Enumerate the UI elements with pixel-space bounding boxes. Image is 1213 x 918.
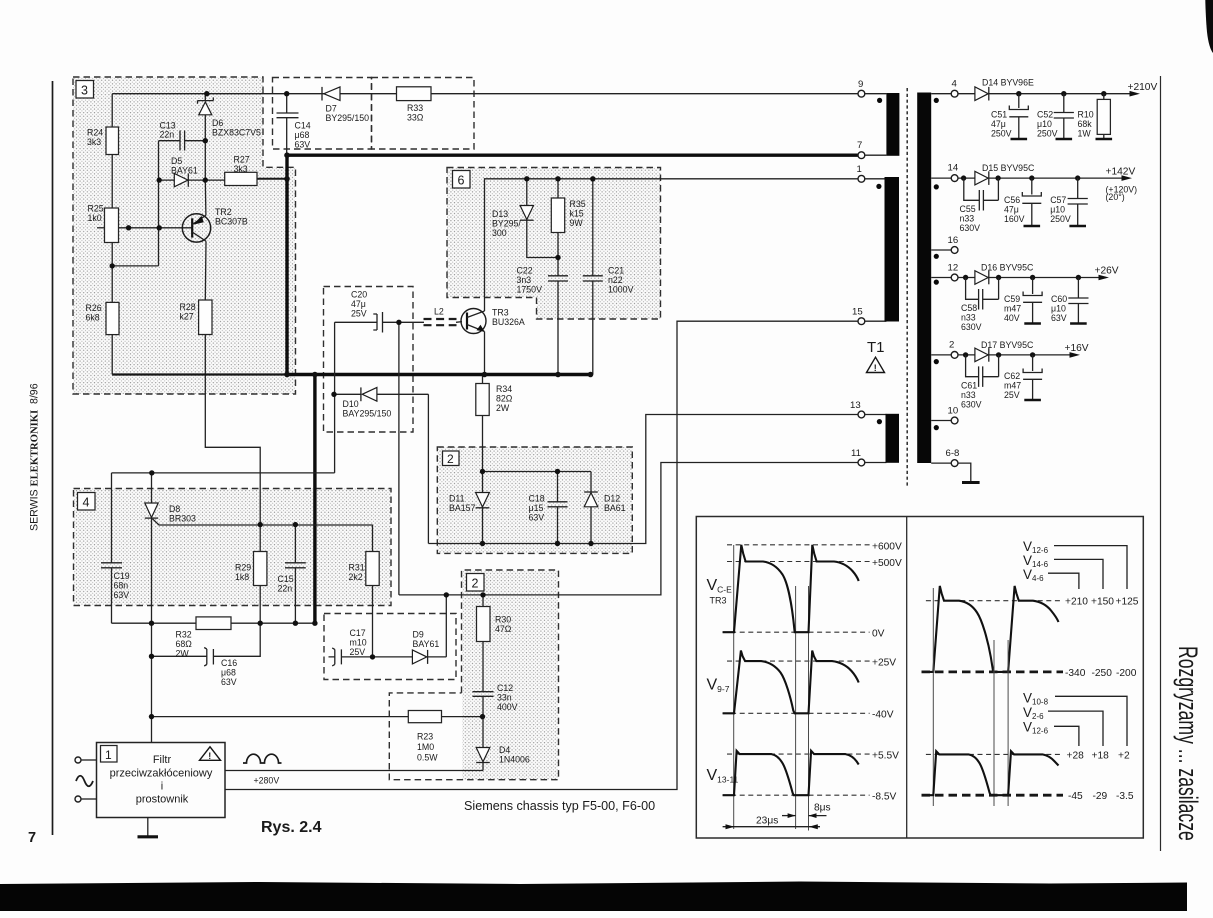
svg-text:2k2: 2k2 [349, 572, 363, 582]
+210V rail wire [958, 93, 1137, 95]
svg-text:1k0: 1k0 [88, 213, 102, 223]
capacitor C15 [285, 563, 306, 568]
svg-text:+150: +150 [1091, 597, 1114, 608]
svg-text:2: 2 [949, 340, 954, 351]
capacitor C13 [180, 131, 185, 151]
svg-text:BC307B: BC307B [215, 217, 248, 227]
wire: pin 1 rail / TR3 collector [485, 179, 859, 311]
svg-text:C61: C61 [961, 381, 977, 391]
svg-text:μ15: μ15 [529, 503, 544, 513]
svg-text:TR2: TR2 [215, 207, 232, 217]
thyristor D8 [145, 503, 158, 518]
svg-text:C58: C58 [961, 303, 977, 313]
svg-text:C52: C52 [1037, 110, 1053, 120]
svg-text:TR3: TR3 [710, 596, 727, 606]
right page rule [1160, 76, 1162, 851]
svg-text:10: 10 [948, 406, 959, 417]
svg-text:C15: C15 [278, 574, 294, 584]
svg-text:250V: 250V [1050, 214, 1071, 224]
svg-text:+210: +210 [1065, 597, 1088, 608]
svg-text:11: 11 [851, 448, 861, 459]
svg-text:68n: 68n [114, 581, 129, 591]
warning triangle in block 1 [200, 747, 221, 761]
svg-text:R28: R28 [180, 302, 196, 312]
resistor R28 [199, 300, 212, 335]
block 4 tag [78, 493, 96, 511]
V 13-11 waveform trace [723, 751, 859, 795]
svg-text:BZX83C7V5: BZX83C7V5 [212, 128, 261, 138]
svg-text:+28: +28 [1067, 751, 1085, 762]
svg-text:R32: R32 [176, 630, 192, 640]
svg-text:C18: C18 [529, 494, 545, 504]
diode D10 [361, 387, 377, 401]
bottom black bar [0, 882, 1187, 912]
svg-text:+5.5V: +5.5V [872, 751, 899, 762]
resistor R27 [225, 172, 257, 185]
svg-text:n33: n33 [961, 390, 976, 400]
svg-text:12: 12 [948, 263, 959, 274]
capacitor C16 (electrolytic) [204, 648, 213, 667]
svg-text:23μs: 23μs [756, 816, 778, 827]
block 6 outline (shaded) [447, 168, 661, 320]
svg-text:7: 7 [28, 830, 36, 846]
svg-text:9: 9 [858, 79, 863, 90]
svg-text:D5: D5 [171, 156, 182, 166]
svg-text:R33: R33 [407, 103, 423, 113]
capacitor C52 [1054, 94, 1074, 139]
svg-text:C55: C55 [960, 204, 976, 214]
svg-text:25V: 25V [1004, 390, 1020, 400]
svg-text:160V: 160V [1004, 214, 1025, 224]
waveform inset divider [906, 517, 908, 839]
svg-text:6-8: 6-8 [946, 448, 960, 459]
svg-text:prostownik: prostownik [136, 794, 189, 806]
inductor L2 (dashed core) [424, 319, 457, 325]
wire: C20 node column down to pin11 run [398, 322, 400, 595]
svg-text:R23: R23 [417, 732, 433, 742]
capacitor C12 [473, 692, 494, 697]
+142V arrow [1122, 175, 1133, 181]
block 1 box [97, 743, 226, 818]
resistor R30 [477, 607, 491, 642]
snubber capacitor C61 [966, 355, 999, 387]
svg-text:n22: n22 [608, 275, 623, 285]
wire: D4 return to mains block [225, 770, 483, 772]
T1 secondary pin 16 [931, 235, 958, 253]
svg-text:250V: 250V [1037, 129, 1058, 139]
wire: +280V run to pin 15 [225, 321, 858, 789]
block 2a tag [443, 451, 460, 466]
diode D7 [322, 87, 340, 101]
svg-text:2: 2 [447, 452, 454, 466]
resistor R10 [1096, 94, 1113, 139]
svg-text:n33: n33 [961, 313, 976, 323]
rectified waveform symbol [243, 754, 282, 763]
svg-text:C21: C21 [608, 266, 624, 276]
svg-text:D16 BYV95C: D16 BYV95C [981, 263, 1034, 273]
right panel lower waveform trace [922, 751, 1059, 795]
node dots +26 rail [963, 275, 1081, 280]
block 2b tag [467, 574, 485, 592]
svg-text:63V: 63V [114, 590, 130, 600]
svg-text:m10: m10 [350, 638, 367, 648]
svg-text:33Ω: 33Ω [407, 113, 424, 123]
svg-text:630V: 630V [961, 400, 982, 410]
capacitor C18 [548, 502, 568, 507]
svg-text:-8.5V: -8.5V [872, 792, 897, 803]
wire: D6 column / TR2 emitter [204, 94, 207, 216]
svg-text:R10: R10 [1078, 110, 1094, 120]
svg-text:μ68: μ68 [221, 668, 236, 678]
T1 primary pin 15 [852, 307, 886, 325]
svg-text:16: 16 [948, 235, 959, 246]
block 4 outline (shaded) [74, 489, 392, 606]
svg-text:C19: C19 [114, 571, 130, 581]
wire: R35 branch [557, 179, 559, 258]
diode D5 [174, 173, 188, 186]
wire: C22 branch [557, 258, 559, 375]
wire: C17/D9 row [329, 656, 447, 658]
+26V rail wire [958, 277, 1106, 279]
wire: bold vertical x315 [313, 375, 316, 624]
wire: D10 row [334, 393, 428, 395]
T1 secondary pin 10 [931, 406, 958, 424]
left page rule [52, 81, 54, 835]
svg-text:3: 3 [81, 84, 88, 98]
svg-text:BA61: BA61 [604, 503, 626, 513]
svg-text:1750V: 1750V [517, 285, 543, 295]
svg-text:+280V: +280V [254, 776, 280, 786]
capacitor C14 [277, 113, 299, 118]
svg-text:D17 BYV95C: D17 BYV95C [981, 340, 1034, 350]
rectifier D16 [975, 271, 989, 285]
wire: C20 left column down [334, 322, 336, 473]
svg-text:k27: k27 [180, 312, 194, 322]
svg-text:k15: k15 [570, 209, 584, 219]
capacitor C56 (electrolytic) [1022, 178, 1041, 226]
waveform inset frame [696, 517, 1143, 839]
T1 core divider [906, 88, 908, 487]
T1 warning triangle [867, 357, 885, 373]
left panel dashed level 0V [723, 631, 870, 633]
wire: bold vertical x287 [285, 155, 288, 374]
svg-text:BU326A: BU326A [492, 317, 525, 327]
right panel baseline heavy dashed (lower) [922, 794, 1064, 797]
svg-text:Rys. 2.4: Rys. 2.4 [261, 819, 322, 836]
resistor R29 [254, 552, 267, 586]
svg-text:Rozgryzamy ... zasilacze: Rozgryzamy ... zasilacze [1173, 646, 1202, 841]
block 3 tag [76, 81, 94, 99]
block 2a outline (shaded) [437, 447, 632, 553]
diode D11 [476, 493, 490, 508]
svg-text:Filtr: Filtr [153, 754, 172, 766]
svg-text:R24: R24 [87, 128, 103, 138]
node dots +16 rail [963, 352, 1035, 357]
svg-text:D10: D10 [343, 399, 359, 409]
transistor TR2 (PNP) [182, 214, 210, 242]
T1 primary phase dots [877, 98, 882, 103]
resistor R32 [196, 617, 231, 630]
wire: TR2 collector to R28 [205, 241, 260, 524]
capacitor C60 [1068, 278, 1088, 324]
svg-text:1M0: 1M0 [417, 742, 434, 752]
wire: R29 branch [259, 525, 261, 624]
T1 primary winding bar 1-15 [885, 177, 900, 322]
right panel plateau dashed line (top) [926, 600, 1063, 602]
svg-text:!: ! [874, 363, 877, 373]
resistor R25 [105, 208, 119, 243]
T1 primary winding bar 13-11 [886, 414, 900, 463]
svg-text:47μ: 47μ [991, 119, 1006, 129]
diode D13 [520, 206, 533, 221]
svg-text:m47: m47 [1004, 381, 1021, 391]
svg-text:1000V: 1000V [608, 285, 634, 295]
mains input terminal bottom [75, 796, 97, 802]
svg-text:R27: R27 [234, 155, 250, 165]
left panel dashed level +600V [727, 544, 870, 546]
svg-text:D13: D13 [492, 209, 508, 219]
svg-text:-29: -29 [1093, 791, 1108, 802]
svg-text:6: 6 [458, 174, 465, 188]
resistor R23 [408, 711, 441, 723]
T1 primary pin 9 [858, 79, 886, 97]
svg-text:+26V: +26V [1095, 266, 1119, 277]
svg-text:6k8: 6k8 [86, 313, 100, 323]
capacitor C57 [1068, 178, 1088, 226]
svg-text:!: ! [208, 751, 211, 761]
wire: C20 row [335, 321, 424, 323]
left panel dashed level -40V [723, 712, 870, 714]
V C-E waveform trace [723, 545, 859, 632]
wire: C21 branch [592, 179, 594, 375]
svg-text:63V: 63V [295, 140, 311, 150]
wire: R24 column [111, 94, 113, 375]
rectifier D14 [975, 87, 989, 101]
block 1 tag [101, 746, 118, 763]
wire: R31 branch [372, 525, 374, 657]
wire: block2a bottom rail to pin 13 [428, 415, 858, 544]
svg-text:R30: R30 [495, 615, 511, 625]
svg-text:22n: 22n [278, 584, 293, 594]
svg-text:R31: R31 [349, 563, 365, 573]
svg-text:-45: -45 [1068, 791, 1083, 802]
svg-text:R34: R34 [496, 384, 512, 394]
block R33 outline [372, 78, 475, 150]
wire: R27 to bold vertical [257, 178, 287, 180]
svg-text:(20°): (20°) [1106, 192, 1125, 202]
svg-text:T1: T1 [867, 339, 885, 356]
capacitor C62 (electrolytic) [1023, 355, 1042, 400]
diode D4 [476, 748, 490, 763]
wire: C12 to D4 [482, 696, 484, 770]
svg-text:1: 1 [857, 164, 862, 175]
svg-text:13: 13 [850, 400, 861, 411]
svg-text:C16: C16 [221, 658, 237, 668]
svg-text:4: 4 [952, 79, 958, 90]
wire: C16 loop [152, 623, 261, 656]
diode D9 [412, 650, 427, 664]
svg-text:25V: 25V [351, 309, 367, 319]
node dots [110, 91, 596, 719]
svg-text:R35: R35 [570, 199, 586, 209]
svg-text:BR303: BR303 [169, 514, 196, 524]
svg-text:250V: 250V [991, 129, 1012, 139]
wire: C18 branch [557, 472, 559, 544]
block D7/C14 outline [273, 78, 372, 150]
svg-text:R26: R26 [86, 303, 102, 313]
svg-text:63V: 63V [529, 513, 545, 523]
wire: thyristor gate row [153, 519, 373, 525]
left panel time axis verticals [733, 545, 735, 829]
block 2b outline (shaded) [462, 571, 558, 780]
svg-text:C20: C20 [351, 290, 367, 300]
wire: TR3 emitter to rail [484, 332, 486, 375]
svg-text:BY295/150: BY295/150 [326, 113, 370, 123]
capacitor C21 [583, 276, 603, 281]
resistor R31 [366, 552, 379, 586]
svg-text:TR3: TR3 [492, 308, 509, 318]
mains sine symbol [76, 776, 93, 787]
svg-text:BA157: BA157 [449, 503, 476, 513]
wire: cross row y473 [112, 472, 335, 474]
wire: L2 to TR3 base [456, 321, 462, 324]
wire: D10 output down [427, 394, 429, 543]
svg-text:D12: D12 [604, 494, 620, 504]
capacitor C22 [548, 276, 568, 281]
rectifier D15 [975, 171, 989, 185]
wire: R30 branch [482, 595, 484, 692]
T1 secondary pin 4 [931, 79, 958, 98]
capacitor C20 (electrolytic) [373, 312, 382, 333]
svg-text:L2: L2 [434, 307, 444, 317]
T1 primary pin 11 [851, 448, 886, 466]
block 6 tag [453, 171, 471, 189]
+26V arrow [1099, 275, 1110, 281]
svg-text:1: 1 [105, 748, 112, 762]
wire: D8 column [151, 473, 153, 743]
wire: bold bottom rail (TR3 emitter rail) [112, 373, 287, 375]
right panel plateau dashed line (lower) [926, 753, 1063, 755]
wire: C14 column [286, 94, 288, 154]
T1 secondary phase dots [934, 98, 939, 103]
svg-text:47Ω: 47Ω [495, 624, 512, 634]
wire: C13 leads [159, 140, 206, 142]
svg-text:63V: 63V [1051, 313, 1067, 323]
svg-text:n33: n33 [960, 214, 975, 224]
wire: pin 11 run [399, 463, 858, 595]
svg-text:przeciwzakłóceniowy: przeciwzakłóceniowy [110, 768, 213, 780]
svg-text:47μ: 47μ [351, 299, 366, 309]
T1 primary pin 13 [850, 400, 886, 418]
capacitor C17 (electrolytic) [332, 648, 341, 666]
transistor TR3 (NPN) [461, 309, 486, 334]
svg-text:22n: 22n [160, 130, 175, 140]
svg-text:1N4006: 1N4006 [499, 755, 530, 765]
pin 6-8 ground [958, 463, 971, 481]
mains input terminal top [75, 757, 97, 763]
svg-text:1k8: 1k8 [235, 572, 249, 582]
svg-text:m47: m47 [1004, 304, 1021, 314]
svg-text:630V: 630V [961, 322, 982, 332]
svg-text:2W: 2W [176, 649, 190, 659]
wire: top rail to pin 9 [112, 93, 858, 95]
node dots +142 rail [961, 175, 1081, 180]
T1 secondary pin 2 [931, 340, 958, 359]
capacitor C51 (electrolytic) [1009, 94, 1028, 139]
top-right corner black wedge [1205, 0, 1213, 53]
svg-text:D4: D4 [499, 745, 510, 755]
block C20/D10 outline [324, 287, 414, 433]
resistor R33 [397, 87, 432, 101]
wire: D11 branch [482, 472, 484, 544]
zener diode D6 [198, 97, 214, 114]
svg-text:C51: C51 [991, 110, 1007, 120]
svg-text:3k3: 3k3 [87, 137, 101, 147]
left panel dashed level +25V [727, 660, 870, 662]
wire: R25 tap [97, 227, 105, 229]
svg-text:C22: C22 [517, 266, 533, 276]
wire: D12 branch [590, 472, 592, 544]
svg-text:+600V: +600V [872, 542, 902, 553]
left panel dashed level -8.5V [723, 794, 870, 796]
wire: D13 branch [527, 179, 558, 258]
wire: bold rail C14 to pin 7 [287, 153, 859, 156]
svg-text:D14 BYV96E: D14 BYV96E [982, 78, 1034, 88]
block C17/D9 outline [324, 614, 456, 680]
svg-text:8μs: 8μs [814, 803, 831, 814]
wire: D5 row [159, 179, 225, 181]
T1 primary pin 1 [857, 164, 887, 182]
svg-text:μ68: μ68 [295, 130, 310, 140]
svg-text:D7: D7 [326, 104, 337, 114]
svg-text:0V: 0V [872, 629, 885, 640]
svg-text:μ10: μ10 [1037, 119, 1052, 129]
+210V arrow [1130, 91, 1141, 97]
svg-text:630V: 630V [960, 223, 981, 233]
svg-text:33n: 33n [497, 693, 512, 703]
right panel upper waveform trace [922, 586, 1059, 672]
wire: R23 rail y717 [152, 716, 483, 718]
right panel axis verticals [932, 588, 934, 806]
svg-text:C60: C60 [1051, 294, 1067, 304]
wire: TR2 base row [119, 227, 193, 229]
svg-text:3k3: 3k3 [234, 164, 248, 174]
block 1 ground [147, 818, 149, 836]
svg-text:25V: 25V [350, 647, 366, 657]
+16V rail wire [958, 354, 1077, 356]
svg-text:C59: C59 [1004, 294, 1020, 304]
svg-text:D15 BYV95C: D15 BYV95C [982, 163, 1035, 173]
wire: R34 branch [482, 375, 484, 472]
rectifier D17 [975, 348, 989, 362]
wire: divider column x158 [112, 141, 158, 266]
svg-text:3n3: 3n3 [517, 275, 532, 285]
resistor R26 [106, 302, 119, 334]
capacitor C59 (electrolytic) [1023, 278, 1042, 324]
wire: block2a top row [483, 471, 592, 473]
capacitor C19 [101, 563, 122, 568]
V 9-7 waveform trace [723, 651, 859, 714]
+16V arrow [1070, 352, 1081, 358]
resistor R35 [551, 198, 564, 233]
svg-text:+2: +2 [1118, 751, 1130, 762]
svg-text:+18: +18 [1092, 751, 1110, 762]
svg-text:-340: -340 [1065, 668, 1086, 679]
svg-text:-200: -200 [1116, 668, 1137, 679]
svg-text:C56: C56 [1004, 195, 1020, 205]
T1 secondary pin 12 [931, 263, 958, 281]
svg-text:1W: 1W [1078, 129, 1092, 139]
